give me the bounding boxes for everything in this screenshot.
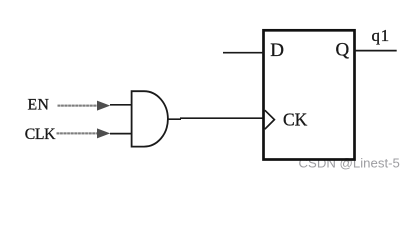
wire EN dashed stimulus line <box>58 105 99 107</box>
wire EN to AND gate input <box>110 104 132 106</box>
wire D input <box>223 52 264 54</box>
svg-text:EN: EN <box>28 97 50 114</box>
svg-text:Q: Q <box>336 40 350 61</box>
clock triangle on U1 <box>265 110 275 129</box>
svg-text:D: D <box>270 40 284 61</box>
svg-text:CSDN @Linest-5: CSDN @Linest-5 <box>299 155 400 170</box>
wire AND output to CK <box>168 118 264 119</box>
wire CLK dashed stimulus line <box>57 132 99 134</box>
svg-text:q1: q1 <box>372 26 390 45</box>
svg-text:CK: CK <box>283 110 308 130</box>
wire Q output <box>354 50 397 52</box>
flip-flop U1 box <box>264 30 355 159</box>
arrowhead CLK <box>97 128 110 138</box>
wire CLK to AND gate input <box>110 133 132 135</box>
and-gate G1 <box>132 91 168 146</box>
arrowhead EN <box>97 101 110 111</box>
svg-text:CLK: CLK <box>25 126 56 143</box>
